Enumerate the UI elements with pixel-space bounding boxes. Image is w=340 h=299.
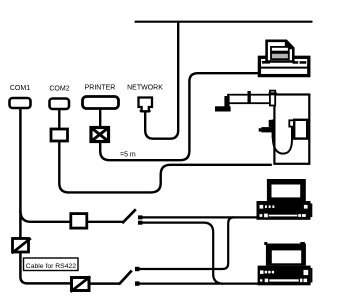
instrument 2 body [258, 266, 311, 286]
instrument 1 screen frame [267, 179, 306, 201]
wire box to switch 1 [87, 221, 123, 223]
X-box diagonal 2 [92, 128, 109, 141]
X-box diagonal 1 [92, 128, 109, 141]
instrument 1 body [257, 201, 311, 220]
converter box RS422 bottom diagonal [71, 277, 91, 292]
robot arm [228, 95, 274, 104]
robot hose [273, 127, 292, 154]
converter box RS422 on bottom row [72, 278, 90, 291]
printer paper sheet [267, 41, 294, 62]
connector PRINTER [83, 97, 119, 109]
svg-text:PRINTER: PRINTER [85, 85, 116, 92]
robot carriage cap [269, 92, 277, 95]
svg-text:NETWORK: NETWORK [127, 85, 163, 92]
robot arm divider tick [248, 91, 251, 103]
printer dash right 2 [300, 61, 307, 64]
robot hose tab [289, 120, 294, 126]
wire pair lower crossing down to instrument 2 line [143, 223, 224, 284]
connector NETWORK plug outline [139, 98, 153, 112]
switch 1 upper contact [138, 215, 143, 219]
adapter box on COM1 top row [71, 214, 87, 229]
instrument 2 right nubs [311, 268, 313, 283]
instrument 1 screen white [272, 185, 301, 198]
converter box RS422 diagonal [12, 238, 31, 253]
connector COM1 [10, 98, 31, 108]
wire NETWORK U-turn up to network [145, 21, 178, 139]
svg-text:COM1: COM1 [10, 85, 30, 92]
instrument 2 screen frame [266, 244, 306, 266]
connector NETWORK plug left foot [140, 110, 142, 112]
robot probe vertical rod [272, 120, 275, 139]
wire pair lower to instrument 2 [140, 283, 259, 285]
instrument 1 right nubs [311, 204, 313, 218]
printer dash right 1 [293, 61, 299, 64]
wire network top horizontal [135, 21, 313, 23]
printer body divider [258, 67, 310, 69]
connector NETWORK plug right foot [149, 110, 151, 112]
wire COM1 vertical [20, 108, 72, 283]
printer paper gray band [271, 53, 289, 59]
robot probe left nub [259, 128, 262, 131]
switch 2 blade [119, 271, 132, 285]
robot gripper foot [215, 106, 231, 111]
wire COM2 with S-bend to robot [59, 109, 271, 192]
robot probe bar [261, 127, 274, 132]
adapter box on COM2 cable [51, 129, 68, 141]
wire PRINTER to X-box and printer device [100, 73, 259, 160]
printer dash left [262, 61, 270, 64]
switch 2 upper contact [135, 267, 140, 271]
wire pair upper to instrument 1 [143, 216, 258, 218]
robot carriage [270, 91, 275, 106]
instrument 2 screen corner ticks [264, 242, 267, 245]
connector COM2 [50, 99, 70, 110]
robot side panel [294, 120, 307, 139]
svg-text:COM2: COM2 [49, 86, 69, 93]
robot probe upper tick [269, 120, 272, 127]
label box Cable for RS422 [24, 258, 79, 271]
instrument 2 screen white [272, 250, 301, 263]
printer device body [259, 57, 308, 75]
svg-text:=5 m: =5 m [120, 152, 136, 159]
instrument 1 white details [260, 205, 308, 217]
robot gripper vertical [224, 96, 229, 107]
converter box RS422 on COM1 line [13, 239, 29, 253]
robot body [274, 95, 309, 164]
instrument 2 white details [260, 270, 308, 282]
wire box2 to switch 2 [89, 282, 119, 285]
wire COM1 branch to instrument 1 row [20, 211, 71, 222]
wire pair upper crossing up to instrument 1 line [140, 217, 235, 269]
printer paper line band [271, 47, 289, 52]
X-box adapter on printer cable [91, 128, 109, 142]
switch 1 lower contact [138, 221, 143, 225]
switch 1 blade [122, 209, 136, 223]
svg-text:Cable for RS422: Cable for RS422 [26, 263, 76, 270]
printer paper fold [285, 40, 294, 49]
switch 2 lower contact [135, 281, 140, 285]
